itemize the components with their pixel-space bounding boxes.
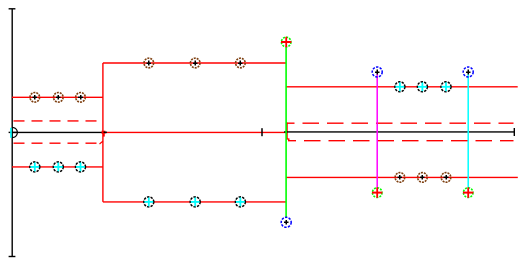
section2 top edge	[103, 62, 286, 64]
section3 bore hidden line top	[287, 122, 514, 124]
origin semicircle arc	[12, 127, 17, 137]
node brown 6	[236, 58, 246, 68]
axis top tick	[9, 8, 16, 10]
axis bottom tick	[9, 256, 16, 258]
bore chamfer diagonal	[100, 141, 104, 144]
junction grip at shoulder	[102, 131, 106, 134]
magenta station line	[376, 74, 378, 188]
centerline left black segment	[12, 131, 107, 133]
section3 bore hidden line bottom	[288, 140, 514, 142]
axis vertical line	[11, 9, 13, 257]
node cyan 2	[53, 162, 63, 172]
node cyan 1	[30, 162, 40, 172]
cyan station line	[467, 74, 469, 188]
section1 bore hidden line top	[14, 120, 102, 122]
node cyan 7	[395, 82, 405, 92]
node blue green-bottom	[281, 217, 291, 227]
section3 bottom edge	[286, 176, 518, 178]
node cyan 6	[235, 197, 245, 207]
centerline right end tick	[513, 128, 515, 136]
support green cyan-bottom	[463, 187, 473, 197]
node blue cyan-top	[463, 67, 473, 77]
centerline red segment	[103, 131, 286, 133]
support green magenta-bottom	[372, 187, 382, 197]
section1 bore hidden line bottom	[14, 142, 101, 144]
node brown 7	[395, 173, 405, 183]
node brown 8	[418, 173, 428, 183]
section3 top edge	[286, 86, 518, 88]
node blue magenta-top	[372, 67, 382, 77]
node cyan 5	[190, 197, 200, 207]
node brown 4	[144, 58, 154, 68]
section3 bore end face hidden vertical	[286, 122, 288, 136]
origin marker cross horizontal arm	[9, 131, 18, 133]
node brown 5	[190, 58, 200, 68]
green station line	[285, 48, 287, 218]
node brown 9	[441, 173, 451, 183]
section1 top edge	[12, 96, 103, 98]
node cyan 9	[441, 82, 451, 92]
node brown 3	[76, 93, 86, 103]
node brown 1	[30, 93, 40, 103]
centerline tick	[261, 128, 263, 136]
centerline right black segment	[284, 131, 514, 133]
support green top	[281, 37, 291, 47]
section1 bottom edge	[12, 166, 103, 168]
origin marker cross vertical arm cyan	[10, 128, 12, 138]
section2 bottom edge	[103, 201, 286, 203]
junction stub below shoulder	[103, 134, 105, 137]
node cyan 8	[417, 82, 427, 92]
section3 bore lower step	[287, 137, 289, 141]
node cyan 3	[76, 162, 86, 172]
section2 left shoulder	[102, 63, 104, 202]
node brown 2	[54, 93, 64, 103]
centerline black tip over junction	[104, 131, 107, 133]
node cyan 4	[144, 197, 154, 207]
